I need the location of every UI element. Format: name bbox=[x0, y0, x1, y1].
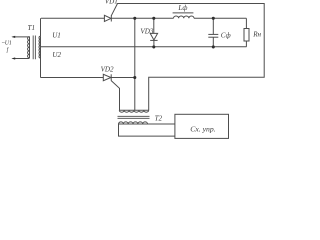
wire center-tap rail bbox=[41, 46, 247, 48]
T1 core bbox=[33, 36, 35, 60]
svg-text:U1: U1 bbox=[52, 32, 61, 40]
diode VD3 bbox=[153, 18, 155, 33]
capacitor C filter bbox=[212, 18, 214, 34]
svg-text:Rн: Rн bbox=[252, 31, 261, 39]
wire T1 secondary top to rail bbox=[40, 18, 42, 36]
svg-text:~U1: ~U1 bbox=[2, 40, 12, 46]
wire T1 secondary bottom down bbox=[40, 58, 42, 78]
svg-text:VD2: VD2 bbox=[101, 65, 114, 73]
wire VD2 cathode bbox=[111, 77, 135, 79]
transformer T2 top winding bbox=[119, 110, 148, 112]
svg-text:Lф: Lф bbox=[177, 4, 187, 12]
arrowhead input bottom bbox=[11, 57, 15, 59]
resistor R load bbox=[245, 18, 247, 28]
wire top rail right segment bbox=[194, 17, 246, 19]
svg-text:Сх. упр.: Сх. упр. bbox=[190, 124, 215, 133]
inductor L filter bbox=[173, 12, 194, 14]
svg-text:T1: T1 bbox=[28, 24, 36, 32]
wire T2 bottom winding left to control box bbox=[119, 124, 175, 136]
junction C top bbox=[212, 17, 215, 20]
wire top rail middle segment bbox=[111, 17, 173, 19]
wire T1 primary top terminal bbox=[13, 36, 30, 38]
junction VD2 cathode bbox=[133, 76, 136, 79]
thyristor VD2 bbox=[103, 74, 111, 80]
wire top rail left segment bbox=[41, 17, 104, 19]
svg-text:VD1: VD1 bbox=[105, 0, 118, 5]
wire node A vertical bbox=[134, 18, 136, 110]
wire T2 bottom winding right to control box bbox=[148, 123, 175, 125]
wire VD2 gate bbox=[111, 81, 119, 111]
junction node A top bbox=[133, 17, 136, 20]
transformer T2 bottom winding bbox=[119, 122, 148, 124]
svg-text:f: f bbox=[7, 47, 10, 54]
transformer T1 primary winding bbox=[28, 37, 30, 58]
svg-text:U2: U2 bbox=[52, 51, 61, 59]
svg-text:T2: T2 bbox=[155, 114, 163, 122]
wire VD2 anode from T1 bbox=[41, 77, 104, 79]
control box bbox=[175, 114, 229, 138]
arrowhead input top bbox=[11, 36, 15, 38]
T2 core bbox=[118, 116, 150, 118]
wire VD1 gate loop bbox=[111, 4, 264, 111]
thyristor VD1 bbox=[104, 15, 111, 21]
junction VD3 top bbox=[152, 17, 155, 20]
transformer T1 secondary winding bbox=[39, 36, 41, 58]
wire T1 primary bottom terminal bbox=[13, 58, 30, 60]
svg-text:Сф: Сф bbox=[221, 32, 231, 40]
svg-text:VD3: VD3 bbox=[140, 28, 153, 36]
junction C bottom bbox=[212, 45, 215, 48]
junction VD3 bottom bbox=[152, 45, 155, 48]
